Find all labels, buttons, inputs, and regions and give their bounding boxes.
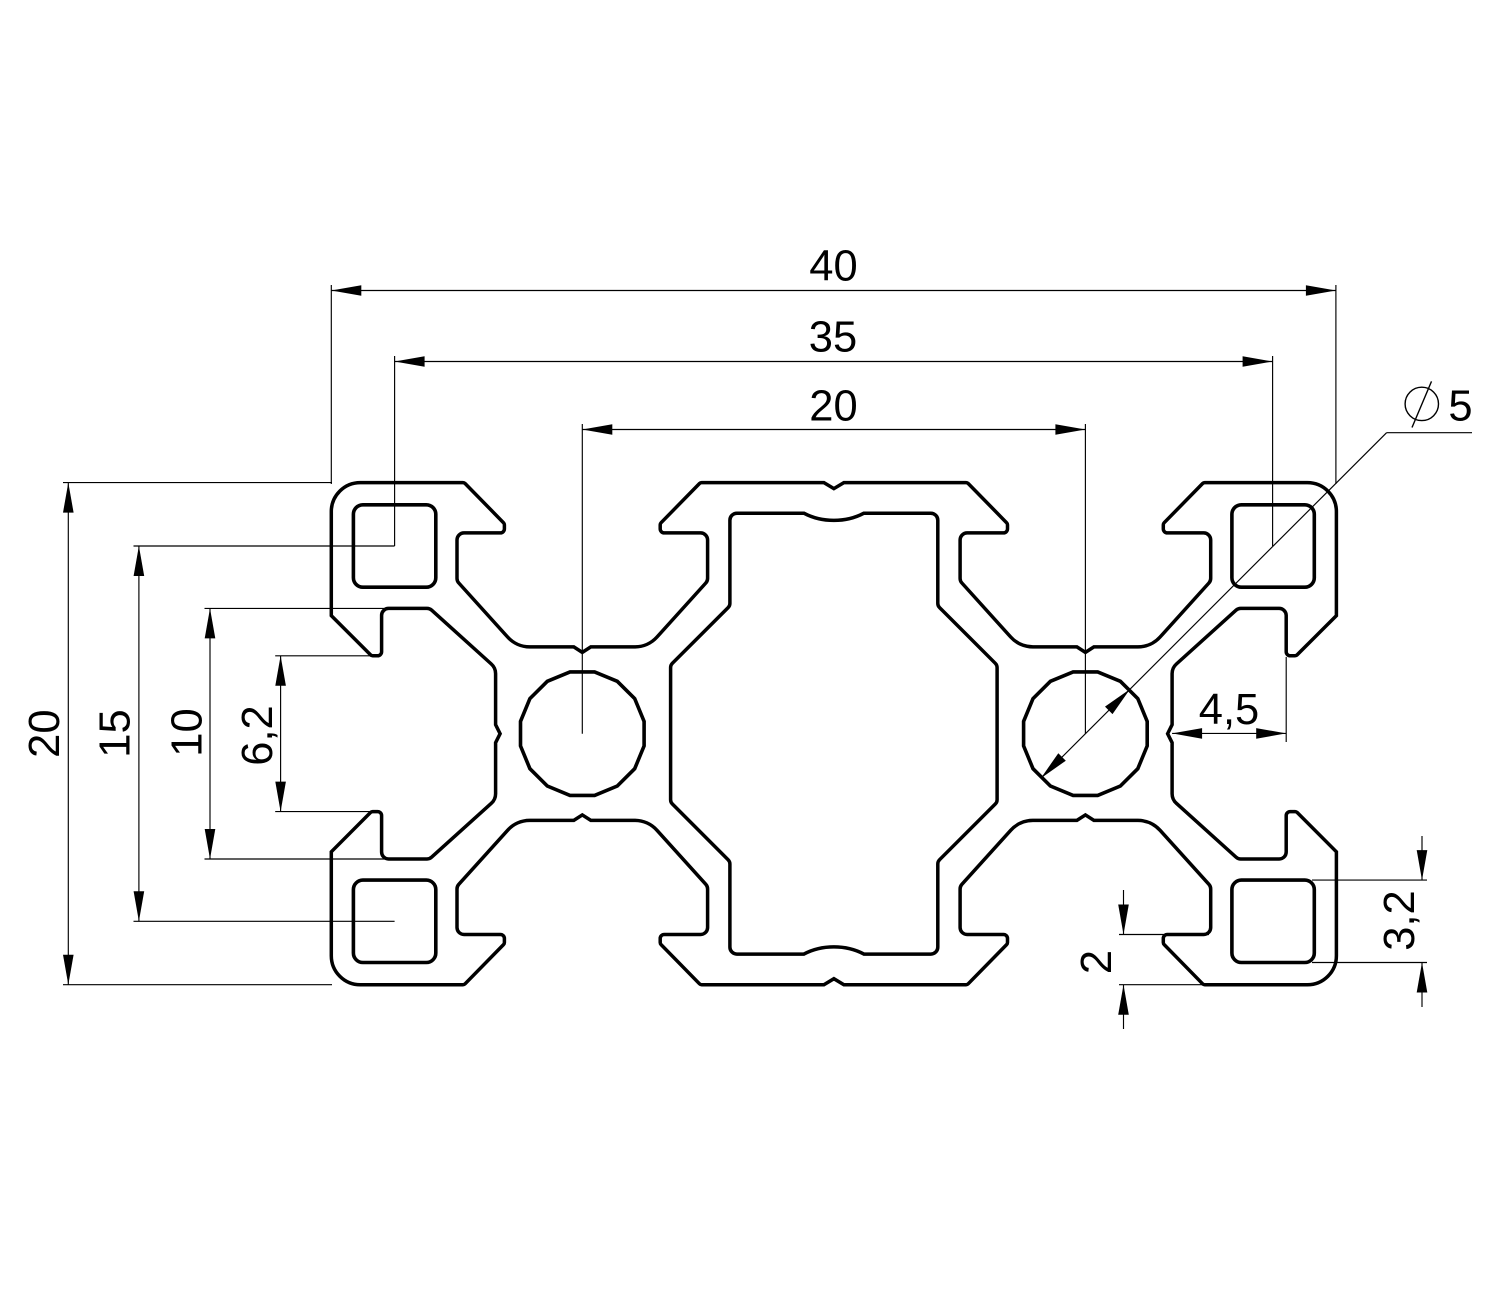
svg-text:35: 35 — [809, 314, 857, 362]
svg-text:10: 10 — [164, 708, 212, 756]
dimension 10 — [164, 608, 387, 859]
svg-text:20: 20 — [809, 383, 857, 431]
svg-text:40: 40 — [809, 243, 857, 291]
svg-text:6,2: 6,2 — [234, 705, 282, 765]
svg-text:20: 20 — [21, 709, 69, 757]
dimension 2 — [1073, 890, 1209, 1029]
corner square hole bottom-left — [353, 880, 435, 962]
core hole circle left — [521, 672, 645, 796]
dimension 4,5 — [1172, 657, 1286, 742]
dimension 6,2 — [234, 656, 371, 812]
profile outer contour — [331, 483, 1336, 985]
dimension 20 top — [582, 383, 1085, 734]
core hole circle right — [1024, 672, 1148, 796]
dimension 20 left — [21, 483, 332, 985]
svg-text:3,2: 3,2 — [1376, 890, 1424, 950]
svg-text:2: 2 — [1073, 950, 1121, 974]
dimension 35 — [395, 314, 1273, 547]
corner square hole bottom-right — [1232, 880, 1314, 962]
dimension 3,2 — [1312, 836, 1427, 1007]
dimension 40 top — [331, 243, 1336, 485]
svg-text:5: 5 — [1448, 383, 1472, 431]
corner square hole top-right — [1232, 505, 1314, 587]
corner square hole top-left — [353, 505, 435, 587]
svg-text:15: 15 — [92, 709, 140, 757]
central cavity hole — [671, 513, 998, 954]
dimension 15 — [92, 546, 395, 921]
svg-text:4,5: 4,5 — [1199, 686, 1259, 734]
diameter 5 leader and label — [1041, 381, 1473, 778]
